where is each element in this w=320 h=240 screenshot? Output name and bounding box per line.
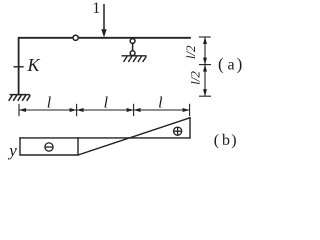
svg-text:1: 1 — [92, 0, 100, 17]
svg-text:(: ( — [214, 132, 219, 149]
svg-text:(: ( — [218, 55, 224, 74]
svg-text:l/2: l/2 — [183, 45, 198, 59]
svg-text:y: y — [7, 141, 17, 160]
svg-text:): ) — [231, 132, 236, 149]
svg-text:l: l — [104, 95, 109, 112]
svg-text:b: b — [222, 132, 230, 149]
svg-text:K: K — [27, 55, 41, 75]
svg-text:l: l — [47, 95, 52, 112]
svg-text:): ) — [237, 55, 243, 74]
svg-text:a: a — [227, 57, 234, 74]
svg-text:l: l — [158, 95, 163, 112]
svg-text:l/2: l/2 — [188, 71, 203, 85]
